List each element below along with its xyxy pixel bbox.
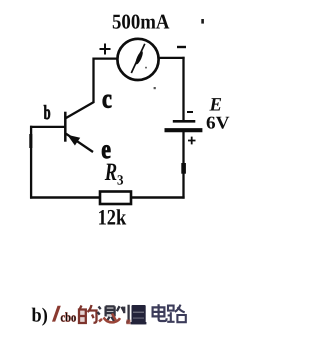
caption char DE [79, 305, 97, 323]
caption char DE ink fill [79, 309, 87, 323]
caption char CE [98, 305, 129, 323]
caption char CE red smudge [99, 314, 120, 323]
battery plus sign [188, 137, 196, 145]
caption char LIANG solid blob [131, 305, 147, 324]
wire artifact thick patch on left wire [29, 134, 32, 148]
battery E top plate [173, 120, 196, 123]
wire left vertical [30, 126, 32, 199]
transistor emitter lead [66, 134, 93, 152]
wire battery top vertical [182, 57, 184, 121]
svg-text:500mA: 500mA [112, 9, 170, 33]
caption I italic [52, 306, 61, 322]
transistor collector lead [66, 102, 94, 118]
svg-text:b): b) [32, 305, 48, 327]
caption char LU [167, 305, 186, 323]
svg-text:6V: 6V [206, 113, 230, 133]
svg-text:R: R [104, 159, 117, 186]
svg-text:3: 3 [117, 173, 124, 188]
minus sign ammeter right [177, 46, 186, 48]
battery E bottom plate [165, 128, 203, 132]
transistor Q1 base bar [64, 112, 67, 142]
caption char DIAN [153, 304, 167, 321]
wire bottom left segment [30, 196, 101, 198]
svg-text:c: c [102, 84, 112, 114]
wire collector vertical [92, 58, 94, 103]
wire ammeter right horizontal [159, 57, 185, 59]
wire bottom right segment [131, 196, 185, 198]
svg-text:b: b [44, 102, 51, 124]
scan speckle dot below ammeter [154, 87, 156, 89]
ammeter needle [131, 44, 145, 73]
svg-text:12k: 12k [98, 204, 127, 229]
scan speckle dot top right [201, 19, 204, 24]
wire artifact thick patch on right wire [181, 163, 186, 174]
scan speckle dot in ammeter [145, 67, 147, 69]
wire battery bottom vertical [182, 132, 184, 199]
ammeter M1 [117, 39, 158, 80]
svg-text:cbo: cbo [61, 310, 77, 325]
wire base lead horizontal [30, 126, 65, 128]
resistor R3 box [100, 192, 131, 205]
caption char CE ink fill [105, 306, 116, 317]
wire ammeter left horizontal [93, 57, 118, 59]
plus sign ammeter left [100, 44, 111, 55]
battery minus sign [187, 111, 193, 113]
transistor emitter arrowhead [67, 135, 80, 146]
caption char CE red blob under hook [126, 320, 130, 325]
